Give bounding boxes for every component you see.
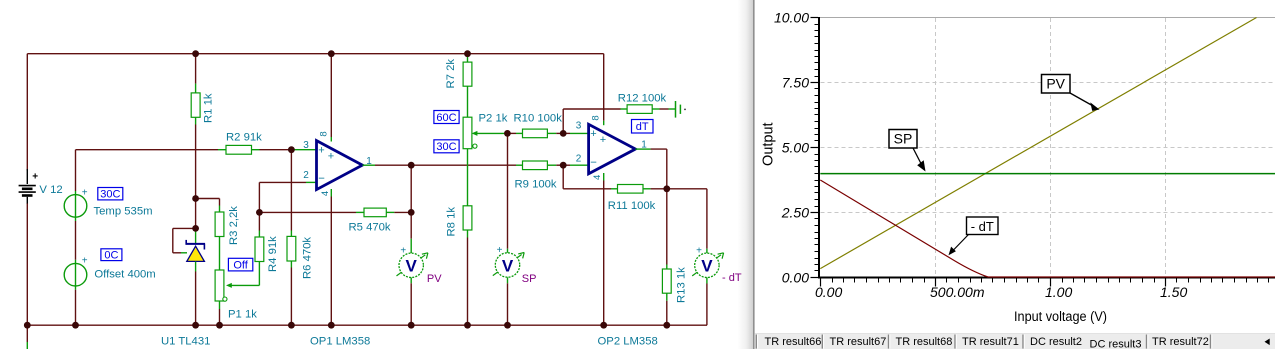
svg-text:P2 1k: P2 1k	[479, 113, 508, 125]
wire R5 row	[259, 211, 411, 213]
wire row to R2 and OP1 +input	[76, 149, 293, 151]
label box dT	[632, 120, 654, 134]
trace SP (green horizontal)	[820, 173, 1275, 175]
wire SP meter column	[507, 133, 509, 325]
label box 30C (P2)	[434, 140, 459, 153]
label box 0C	[101, 249, 122, 262]
svg-text:+: +	[318, 144, 324, 156]
svg-text:500.00m: 500.00m	[930, 284, 985, 300]
svg-text:TR result71: TR result71	[962, 336, 1019, 348]
wire OP2 power pin 4	[603, 173, 605, 325]
resistor R4 91k	[255, 237, 264, 262]
svg-text:R9 100k: R9 100k	[515, 179, 557, 191]
x axis tick labels	[815, 284, 1187, 300]
wire battery column top	[26, 54, 28, 171]
OP2 pin numbers	[576, 115, 648, 180]
ground stub below rail	[26, 325, 28, 349]
svg-text:P1 1k: P1 1k	[228, 309, 257, 321]
battery V 12	[19, 169, 39, 204]
svg-text:7.50: 7.50	[782, 75, 809, 91]
wire R1 column	[195, 54, 197, 229]
dashed vertical gridlines	[936, 18, 1166, 277]
svg-text:Output: Output	[760, 122, 776, 166]
svg-text:R13 1k: R13 1k	[676, 267, 688, 303]
svg-text:+: +	[497, 245, 503, 256]
svg-text:SP: SP	[522, 273, 537, 285]
wire R13 column	[666, 189, 668, 325]
y major ticks	[811, 18, 819, 278]
voltmeter PV	[397, 245, 428, 277]
resistor R9 100k	[523, 161, 548, 170]
trace - dT (maroon)	[820, 180, 1275, 277]
resistor R1 1k	[191, 93, 200, 117]
svg-text:R2 91k: R2 91k	[226, 132, 262, 144]
label box Off	[228, 258, 252, 271]
svg-text:R1 1k: R1 1k	[203, 93, 215, 123]
trace PV (olive ramp)	[820, 18, 1256, 269]
svg-text:Off: Off	[233, 260, 248, 272]
svg-text:SP: SP	[894, 131, 913, 147]
svg-text:8: 8	[319, 131, 330, 136]
wire OP2 -input stub	[563, 164, 588, 166]
wire OP2 power pin 8	[603, 54, 605, 121]
svg-text:Offset 400m: Offset 400m	[94, 269, 155, 281]
wire battery column bottom	[26, 203, 28, 325]
svg-text:4: 4	[592, 175, 603, 180]
y axis tick labels	[774, 10, 809, 286]
op-amp OP2 LM358	[589, 124, 636, 174]
grid top solid line	[820, 17, 1275, 19]
svg-text:Temp 535m: Temp 535m	[94, 206, 153, 218]
x minor ticks	[833, 279, 1269, 283]
voltmeter - dT	[692, 245, 723, 277]
svg-text:OP1 LM358: OP1 LM358	[310, 336, 370, 348]
wire OP2 output	[636, 149, 667, 189]
curve label - dT	[949, 217, 999, 255]
svg-text:5.00: 5.00	[782, 140, 809, 156]
svg-text:10.00: 10.00	[774, 10, 809, 26]
svg-text:Input voltage (V): Input voltage (V)	[1014, 309, 1107, 324]
wire OP1 output row	[363, 164, 564, 166]
svg-text:V: V	[701, 257, 713, 276]
label box 60C	[434, 111, 459, 124]
curve label PV	[1042, 75, 1100, 111]
wire PV meter column	[410, 165, 412, 325]
svg-text:U1 TL431: U1 TL431	[161, 336, 210, 348]
source Offset (400m)	[64, 256, 88, 286]
resistor R13 1k	[662, 269, 671, 293]
svg-text:8: 8	[591, 115, 602, 120]
svg-text:- dT: - dT	[971, 219, 994, 234]
wire R7/P2/R8 column	[467, 54, 469, 326]
wire branch to R3	[196, 198, 220, 200]
svg-text:3: 3	[576, 120, 582, 131]
svg-text:+: +	[600, 134, 606, 146]
svg-text:V: V	[502, 256, 514, 275]
wire R4 column	[258, 212, 260, 285]
y minor ticks	[815, 25, 819, 271]
wire R6 column	[290, 150, 292, 326]
svg-text:TR result66: TR result66	[765, 336, 822, 348]
svg-text:0.00: 0.00	[815, 284, 842, 300]
svg-text:2.50: 2.50	[781, 205, 809, 221]
svg-text:30C: 30C	[436, 141, 456, 153]
svg-text:−: −	[590, 157, 597, 169]
curve label SP	[889, 130, 926, 172]
source Temp (535m)	[64, 187, 88, 217]
svg-text:+: +	[590, 128, 596, 140]
svg-text:TR result68: TR result68	[896, 336, 953, 348]
svg-text:R11 100k: R11 100k	[608, 200, 656, 212]
potentiometer P1 1k	[215, 270, 259, 301]
wire OP1 power pin 4	[330, 189, 332, 325]
OP1 pin numbers	[303, 131, 372, 196]
svg-text:V: V	[406, 257, 418, 276]
svg-text:R6 470k: R6 470k	[302, 237, 314, 279]
svg-text:3: 3	[303, 140, 309, 151]
resistor R8 1k	[463, 206, 472, 230]
svg-text:R5 470k: R5 470k	[349, 222, 391, 234]
svg-text:0C: 0C	[104, 249, 118, 261]
svg-text:+: +	[32, 171, 38, 182]
svg-text:TR result67: TR result67	[830, 336, 887, 348]
svg-text:- dT: - dT	[722, 272, 742, 284]
svg-text:R10 100k: R10 100k	[514, 113, 563, 125]
wire OP1 power pin 8	[330, 54, 332, 137]
svg-text:DC result2: DC result2	[1030, 336, 1082, 348]
wire OP2 -input / R11 link	[563, 165, 667, 189]
svg-text:dT: dT	[636, 121, 649, 133]
svg-text:V 12: V 12	[39, 184, 62, 196]
svg-text:1.00: 1.00	[1045, 284, 1072, 300]
resistor R3 2,2k	[215, 212, 224, 237]
svg-text:30C: 30C	[100, 188, 120, 200]
svg-text:60C: 60C	[436, 112, 456, 124]
svg-text:+: +	[696, 245, 702, 256]
svg-text:PV: PV	[427, 273, 442, 285]
svg-text:R3 2,2k: R3 2,2k	[228, 206, 240, 245]
resistor R6 470k	[287, 236, 296, 261]
svg-text:+: +	[400, 245, 406, 256]
potentiometer P2 1k	[463, 117, 507, 149]
svg-text:2: 2	[576, 154, 582, 165]
svg-text:TR result72: TR result72	[1152, 336, 1209, 348]
resistor R5 470k	[364, 208, 386, 217]
label box 30C	[98, 188, 123, 201]
svg-text:4: 4	[320, 191, 331, 196]
op-amp OP1 LM358	[317, 141, 363, 190]
y axis	[818, 17, 820, 279]
resistor R7 2k	[463, 62, 472, 86]
resistor R12 100k	[627, 105, 652, 114]
svg-text:R4 91k: R4 91k	[267, 236, 279, 272]
resistor R2 91k	[226, 145, 252, 154]
wire sources column	[75, 150, 77, 326]
svg-text:OP2 LM358: OP2 LM358	[598, 336, 658, 348]
wire OP2 +input / R12 link	[563, 109, 675, 133]
svg-text:+: +	[82, 256, 88, 267]
wire TL431 ref loop	[173, 228, 196, 252]
wire OP1 -input branch	[259, 182, 316, 212]
TL431 U1	[186, 229, 206, 325]
svg-text:+: +	[328, 151, 334, 163]
ground symbol (R12)	[676, 101, 686, 118]
resistor R10 100k	[523, 129, 548, 138]
wire R10 row	[507, 132, 588, 134]
svg-text:1.50: 1.50	[1160, 284, 1187, 300]
svg-text:DC result3: DC result3	[1090, 338, 1142, 349]
wire OP1 +input stub	[292, 149, 317, 151]
scroll arrow	[1265, 339, 1270, 346]
wire dT meter branch	[667, 189, 707, 325]
voltmeter SP	[493, 245, 524, 277]
svg-text:PV: PV	[1046, 76, 1065, 92]
svg-text:R12 100k: R12 100k	[618, 93, 667, 105]
svg-text:−: −	[318, 173, 325, 185]
svg-text:0.00: 0.00	[782, 270, 809, 286]
wire top rail V+	[27, 53, 603, 55]
wire bottom ground rail	[27, 324, 707, 326]
x axis	[818, 277, 1275, 279]
svg-text:2: 2	[303, 170, 309, 181]
x major ticks	[821, 279, 1166, 287]
svg-text:R7 2k: R7 2k	[445, 59, 457, 89]
wire R3/P1 column	[219, 199, 221, 326]
resistor R11 100k	[618, 185, 644, 194]
svg-text:+: +	[82, 187, 88, 198]
dashed horizontal gridlines	[821, 83, 1275, 213]
svg-text:R8 1k: R8 1k	[446, 207, 458, 237]
